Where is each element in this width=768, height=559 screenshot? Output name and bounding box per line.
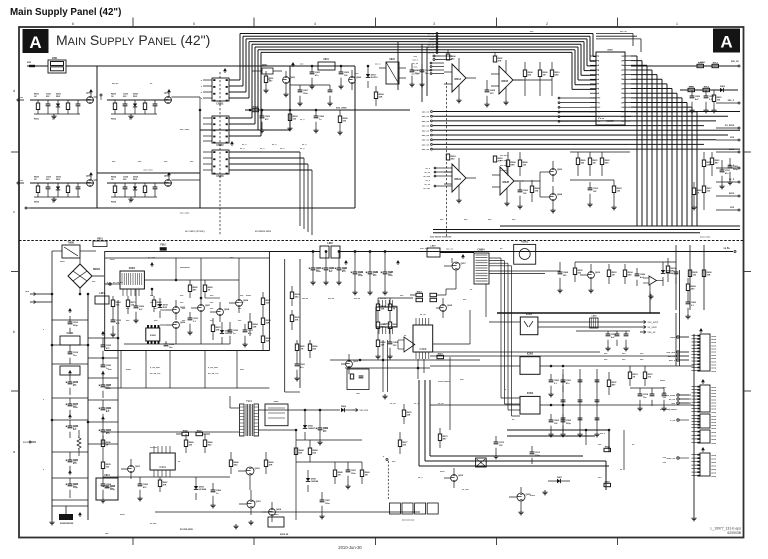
resistor R908	[333, 462, 343, 484]
pin number	[596, 112, 625, 114]
svg-text:Q831: Q831	[86, 93, 92, 95]
wire	[649, 292, 651, 313]
junction	[87, 293, 89, 295]
transistor Q905	[444, 468, 464, 488]
wire	[631, 84, 667, 226]
svg-text:R857: R857	[438, 353, 444, 355]
svg-text:xxxx: xxxx	[711, 402, 717, 404]
filter FL801	[60, 333, 80, 345]
resistor R907	[294, 440, 304, 455]
svg-text:xxxx: xxxx	[711, 399, 717, 401]
wire	[590, 64, 596, 66]
wire	[136, 289, 152, 302]
net label	[420, 248, 503, 250]
wire	[625, 83, 631, 85]
transistor Q809	[341, 354, 359, 374]
resistor R915	[360, 462, 370, 484]
svg-text:Q818: Q818	[447, 305, 453, 307]
wire	[296, 461, 362, 463]
label ic901 area	[150, 447, 181, 463]
capacitor C856	[557, 262, 568, 293]
svg-text:xxx xx: xxx xx	[354, 298, 361, 300]
wire	[52, 477, 88, 479]
net stub xxx_xx	[668, 355, 689, 358]
wire	[422, 129, 740, 132]
capacitor C871	[587, 182, 598, 207]
wire	[430, 351, 600, 353]
wire	[744, 390, 752, 392]
thermistor TH801	[52, 243, 96, 259]
svg-text:1M: 1M	[338, 474, 341, 476]
resistor R845	[374, 86, 384, 106]
svg-text:xxx_xx: xxx_xx	[422, 130, 430, 132]
svg-text:xxx x: xxx x	[600, 433, 606, 435]
wire	[200, 129, 290, 131]
wire	[88, 377, 118, 379]
svg-text:IC802: IC802	[150, 335, 157, 337]
comparator U801B	[491, 60, 523, 105]
svg-text:R933: R933	[34, 202, 40, 204]
opamp U805	[643, 276, 663, 292]
svg-text:xxxx: xxxx	[711, 443, 717, 445]
net label	[411, 63, 419, 65]
wire	[558, 111, 596, 113]
net label	[414, 67, 419, 69]
wire	[590, 55, 596, 57]
node a	[13, 449, 16, 454]
wire	[590, 60, 596, 62]
wire	[575, 261, 676, 263]
resistor R842	[263, 71, 274, 93]
wire	[679, 402, 691, 404]
wire	[52, 499, 88, 501]
svg-text:x_xx_xxx: x_xx_xxx	[208, 367, 219, 369]
wire	[422, 144, 704, 147]
wire	[625, 111, 631, 113]
wire	[631, 103, 687, 227]
label gate bus	[143, 170, 153, 172]
capacitor C881	[637, 388, 648, 411]
svg-text:xxxx: xxxx	[274, 514, 280, 516]
label pfc	[420, 314, 464, 383]
wire	[590, 115, 596, 117]
wire	[354, 66, 356, 208]
wire	[199, 110, 201, 208]
wire	[88, 421, 118, 423]
junctions2	[359, 359, 419, 369]
hybrid IC IC801	[120, 267, 144, 289]
wire	[558, 116, 596, 118]
label row6b	[600, 433, 635, 446]
connector CN903	[692, 414, 717, 430]
diode D952	[303, 410, 316, 440]
wire	[433, 55, 452, 57]
transistor Q820	[580, 264, 601, 288]
wire	[51, 251, 53, 294]
junction	[340, 65, 342, 67]
wire	[52, 363, 88, 365]
svg-text:CN803: CN803	[216, 176, 224, 178]
svg-text:xx B+: xx B+	[724, 247, 731, 250]
svg-text:xxx_xxxx: xxx_xxxx	[665, 395, 676, 397]
wire	[625, 55, 631, 57]
wire	[375, 538, 377, 546]
resistor R883	[530, 180, 540, 202]
svg-text:10K: 10K	[381, 308, 385, 310]
svg-text:xxx_xx: xxx_xx	[422, 112, 430, 114]
resistor R863	[688, 86, 695, 92]
resistor R906	[264, 452, 274, 474]
junction bulk	[312, 251, 386, 253]
svg-text:xx_xxx: xx_xxx	[423, 176, 431, 178]
svg-text:R843: R843	[269, 461, 275, 464]
svg-text:Q815: Q815	[458, 475, 464, 477]
svg-text:IC808: IC808	[419, 347, 426, 351]
svg-text:R801: R801	[97, 239, 103, 241]
resistor R812	[203, 280, 213, 298]
isolation separator	[19, 240, 743, 242]
wire	[590, 69, 596, 71]
wire	[587, 39, 596, 66]
svg-text:xxxx: xxxx	[274, 401, 280, 403]
svg-text:Q807: Q807	[205, 305, 211, 307]
wire	[558, 106, 596, 108]
label cn902 col	[663, 387, 667, 399]
resistor R826	[211, 318, 221, 340]
svg-text:10K: 10K	[535, 190, 539, 192]
svg-text:xxx_xx: xxx_xx	[422, 116, 430, 118]
wire	[422, 111, 740, 114]
wire	[422, 148, 740, 151]
svg-text:xxxx: xxxx	[711, 336, 717, 338]
mosfet Q906	[509, 487, 532, 515]
pin number	[596, 79, 625, 81]
label c813 area	[105, 514, 157, 535]
wire	[631, 65, 647, 226]
net label	[426, 180, 431, 182]
svg-text:C842: C842	[342, 267, 348, 270]
relay RL801	[514, 242, 536, 265]
wire	[434, 185, 452, 187]
wire	[203, 129, 212, 131]
rail B	[299, 259, 301, 388]
junction	[562, 404, 564, 406]
svg-text:xxxx: xxxx	[711, 387, 717, 389]
wire	[507, 430, 609, 452]
net stub ac	[25, 207, 30, 209]
svg-text:220p: 220p	[733, 169, 738, 171]
node 1	[676, 21, 679, 26]
svg-text:C840: C840	[329, 267, 335, 270]
regulator box U901	[268, 514, 284, 527]
node c	[13, 209, 15, 214]
choke L803	[427, 246, 440, 258]
controller IC901	[150, 446, 175, 477]
resistor R874	[588, 152, 598, 176]
ic IC809	[376, 300, 397, 334]
pin number	[596, 56, 625, 58]
net stub xxx_x	[716, 100, 740, 104]
wire	[679, 351, 689, 353]
svg-text:L804: L804	[592, 315, 598, 318]
svg-text:xx_xx: xx_xx	[438, 403, 444, 405]
fusible resistor row	[389, 503, 438, 522]
bridge rectifier BD801	[68, 264, 101, 288]
wire	[430, 355, 677, 357]
resistor R912	[203, 434, 213, 453]
svg-text:Main Supply Panel (42"): Main Supply Panel (42")	[10, 7, 121, 18]
resistor R895	[410, 291, 446, 296]
diode D861	[720, 86, 726, 92]
pin number	[596, 102, 625, 104]
ground	[648, 294, 653, 299]
wire	[430, 319, 520, 321]
wire	[489, 273, 545, 275]
wire	[203, 151, 212, 153]
net stub xxx_x	[716, 165, 740, 169]
svg-text:xxx xx.x: xxx xx.x	[500, 170, 509, 172]
junction	[608, 429, 610, 431]
pfc ic IC808	[413, 318, 433, 359]
resistor R821	[607, 264, 617, 284]
svg-text:xxx_xxxx: xxx_xxxx	[336, 107, 347, 110]
net label	[424, 184, 430, 186]
svg-text:xxx_x: xxx_x	[728, 100, 735, 102]
sub row divider	[105, 351, 270, 389]
svg-text:1M: 1M	[543, 74, 546, 76]
svg-text:xxxx: xxxx	[711, 422, 717, 424]
svg-text:xxx_xxx: xxx_xxx	[420, 248, 429, 250]
wire	[378, 297, 413, 299]
resistor R901	[101, 432, 111, 455]
resistor R920	[438, 428, 448, 448]
capacitor C851	[484, 80, 495, 107]
svg-text:U841: U841	[323, 58, 329, 61]
regulator IC806	[520, 393, 540, 414]
wire	[144, 279, 176, 281]
net stub bus0	[427, 33, 438, 36]
wire	[572, 52, 596, 89]
net stub xxx_xxx	[666, 351, 689, 354]
resistor R823	[688, 270, 712, 277]
wire	[625, 74, 631, 76]
gate driver Q832 group	[107, 89, 172, 121]
label r910 area	[598, 444, 623, 479]
svg-text:R812: R812	[713, 62, 719, 64]
resistor R886	[666, 258, 676, 282]
wire	[52, 419, 88, 421]
gate driver Q831 group	[30, 89, 94, 121]
sheet title	[56, 32, 210, 48]
comparator U801A	[444, 58, 476, 103]
capacitor C825	[242, 324, 253, 347]
wire	[52, 451, 88, 453]
svg-text:xxxx: xxxx	[729, 193, 735, 195]
wire	[229, 158, 304, 229]
wire	[590, 120, 596, 122]
wire	[489, 263, 520, 410]
label pfc2	[400, 295, 407, 337]
wire	[430, 73, 444, 75]
wire	[631, 89, 672, 226]
B+ rail	[105, 252, 743, 254]
capacitor C876	[615, 331, 620, 346]
wire	[630, 387, 664, 389]
wire	[430, 404, 520, 406]
svg-text:IC801: IC801	[129, 267, 136, 270]
label row	[108, 367, 244, 375]
svg-text:xxxx: xxxx	[126, 369, 132, 371]
filter FL802	[60, 366, 80, 375]
svg-text:10K: 10K	[116, 304, 120, 306]
transformer T901	[240, 400, 259, 436]
net stub VCC	[731, 61, 740, 67]
junction	[199, 109, 201, 111]
svg-text:xxx_x: xxx_x	[375, 64, 381, 66]
wire	[229, 44, 581, 118]
svg-text:R841: R841	[262, 64, 268, 67]
svg-text:IC901: IC901	[159, 465, 166, 469]
stub k	[383, 456, 388, 461]
svg-text:R934: R934	[111, 201, 117, 204]
net label	[426, 168, 431, 170]
svg-text:R854: R854	[691, 285, 697, 288]
label right mid	[604, 353, 644, 361]
wire	[130, 289, 132, 296]
svg-text:IC806: IC806	[527, 393, 534, 395]
wire	[138, 289, 140, 296]
wire	[176, 258, 239, 298]
wire	[536, 253, 740, 255]
wire	[430, 62, 444, 64]
wire	[296, 439, 362, 441]
wire	[426, 47, 428, 96]
svg-text:Q834: Q834	[164, 175, 170, 178]
junction	[51, 293, 53, 295]
wire	[103, 476, 230, 478]
svg-text:xxxx: xxxx	[711, 371, 717, 373]
svg-text:xxxx: xxxx	[711, 428, 717, 430]
wire	[203, 140, 212, 142]
wire	[675, 245, 677, 310]
pin number	[596, 107, 625, 109]
junction	[289, 109, 291, 111]
diode D820	[661, 262, 674, 286]
fuse F801	[48, 57, 66, 73]
net stub xxxx_xx	[666, 457, 689, 460]
svg-text:xxx_xx: xxx_xx	[422, 126, 430, 128]
wire	[229, 39, 587, 92]
transformer T802	[310, 242, 460, 258]
svg-text:xxx xx: xxx xx	[328, 298, 335, 300]
capacitor C846	[313, 110, 324, 133]
wire	[433, 59, 452, 61]
wire	[585, 430, 587, 445]
svg-text:R864: R864	[253, 323, 259, 326]
svg-text:xxxx: xxxx	[660, 380, 666, 382]
wire	[433, 229, 740, 231]
resistor R875	[600, 152, 610, 176]
svg-text:xxx_x: xxx_x	[412, 60, 418, 62]
net stub row1	[17, 97, 24, 101]
svg-text:U802A: U802A	[454, 178, 461, 181]
wire	[433, 232, 700, 234]
svg-text:R814: R814	[704, 85, 710, 88]
svg-text:Q833: Q833	[86, 176, 92, 178]
wire	[176, 318, 201, 344]
label midrow	[112, 161, 194, 163]
resistor R825	[126, 296, 136, 314]
wire	[259, 430, 297, 520]
net stub bus3	[428, 41, 438, 44]
wire	[617, 18, 619, 28]
wire	[201, 80, 212, 82]
svg-text:xxx xx: xxx xx	[380, 298, 387, 300]
wire	[269, 251, 320, 253]
resistor R866	[702, 152, 712, 182]
svg-text:xxx_xxx: xxx_xxx	[666, 352, 675, 354]
svg-text:Q810: Q810	[595, 272, 601, 274]
svg-text:Q813: Q813	[256, 501, 262, 503]
rail mid	[87, 294, 89, 520]
svg-text:xxx_x: xxx_x	[412, 70, 418, 72]
power arrow CN803	[230, 141, 234, 146]
node ACL	[25, 291, 52, 296]
wire	[88, 357, 118, 359]
label secondary	[180, 529, 289, 536]
svg-text:xxxx: xxxx	[711, 425, 717, 427]
resistor R855	[550, 62, 560, 96]
resistor R846	[337, 110, 348, 135]
node d	[13, 88, 15, 93]
wire	[558, 102, 596, 104]
wire	[679, 394, 691, 396]
resistor R887	[686, 278, 696, 298]
wire	[126, 289, 128, 296]
capacitor C852	[548, 374, 559, 397]
wire	[596, 34, 700, 47]
svg-text:xxx_xx: xxx_xx	[411, 74, 419, 76]
capacitor C842	[338, 66, 349, 89]
resistor R813	[261, 292, 271, 312]
svg-text:C849: C849	[640, 273, 646, 276]
net stub bus7	[428, 51, 438, 54]
diode D810	[220, 322, 233, 344]
capacitor C854	[548, 414, 559, 437]
capacitor C857	[674, 268, 679, 284]
rail left	[51, 294, 53, 520]
svg-text:xx_xxx: xx_xxx	[462, 489, 470, 491]
svg-text:xxxx: xxxx	[670, 337, 676, 339]
svg-text:xxx_xxxx: xxx_xxxx	[180, 213, 190, 215]
resistor R884	[710, 152, 720, 176]
power arrow CN801	[223, 68, 227, 73]
capacitor C882	[650, 388, 655, 406]
svg-text:xxxx: xxxx	[246, 295, 252, 297]
net stub bus5	[427, 46, 438, 49]
wire	[590, 83, 596, 85]
capacitor C847	[297, 85, 308, 106]
svg-text:U802B: U802B	[502, 182, 509, 184]
svg-text:xxxx: xxxx	[711, 355, 717, 357]
wire	[93, 97, 200, 110]
wire	[625, 115, 631, 117]
wire	[449, 357, 451, 430]
snubber box	[265, 401, 288, 426]
wire	[30, 207, 355, 209]
capacitor C861	[689, 90, 700, 113]
svg-text:xxxx: xxxx	[711, 476, 717, 478]
